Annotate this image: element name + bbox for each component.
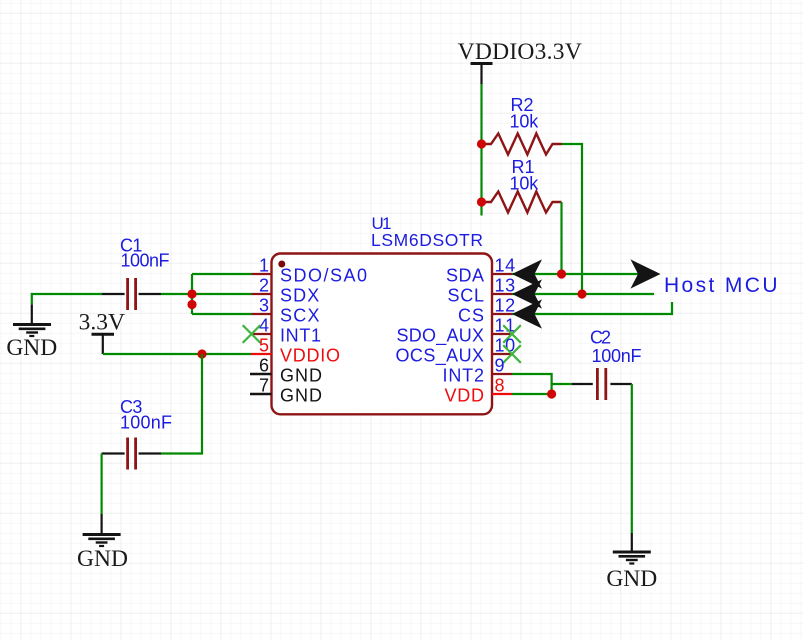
wire C3 to GND <box>100 454 102 515</box>
svg-text:9: 9 <box>495 356 505 376</box>
svg-text:13: 13 <box>495 276 516 296</box>
resistor R1 <box>482 157 562 213</box>
power flag VDDIO3.3V <box>458 39 582 84</box>
svg-text:GND: GND <box>606 566 657 592</box>
svg-text:SDO_AUX: SDO_AUX <box>397 326 485 347</box>
svg-text:3.3V: 3.3V <box>79 310 125 336</box>
svg-text:INT2: INT2 <box>443 366 485 386</box>
wire R1 to SDA <box>560 202 562 274</box>
svg-text:SCX: SCX <box>280 306 320 326</box>
svg-text:2: 2 <box>259 276 269 296</box>
pin 4 INT1 <box>252 316 322 346</box>
pin 14 SDA <box>446 256 515 286</box>
svg-text:10k: 10k <box>510 112 540 132</box>
capacitor C2 <box>572 328 642 401</box>
arrow into pin12 <box>512 299 542 328</box>
pin 10 OCS_AUX <box>396 336 516 367</box>
power flag 3.3V <box>79 310 125 355</box>
svg-text:SDA: SDA <box>446 266 484 286</box>
junction node 3.3V/C3 <box>197 349 206 358</box>
svg-text:GND: GND <box>280 366 322 386</box>
svg-text:6: 6 <box>259 356 269 376</box>
wire pin9 jog to C2 <box>512 374 572 394</box>
svg-text:8: 8 <box>495 376 505 396</box>
svg-text:7: 7 <box>259 376 269 396</box>
svg-text:10k: 10k <box>510 174 540 194</box>
svg-text:SDX: SDX <box>280 286 319 306</box>
pin 11 SDO_AUX <box>397 316 516 347</box>
wire SCL net <box>512 293 654 295</box>
no-connect X pin4 <box>243 325 261 343</box>
capacitor C3 <box>102 397 172 470</box>
wire C2 to GND <box>631 384 633 533</box>
arrow into pin14 <box>512 259 542 288</box>
pin 1 SDO/SA0 <box>252 256 368 286</box>
capacitor C1 <box>102 236 170 311</box>
arrow to Host MCU <box>631 259 661 288</box>
svg-text:14: 14 <box>495 256 516 276</box>
pin 13 SCL <box>448 276 516 306</box>
junction node pin2 bus <box>187 289 196 298</box>
pin 7 GND <box>250 376 322 406</box>
pin 12 CS <box>458 296 515 326</box>
junction node R2-rail <box>477 139 486 148</box>
ground GND C3 <box>77 514 128 572</box>
wire CS net <box>512 302 672 314</box>
op IC U1 body <box>272 214 493 414</box>
svg-text:VDDIO3.3V: VDDIO3.3V <box>458 39 582 65</box>
svg-text:5: 5 <box>259 336 269 356</box>
junction node pin8 <box>547 389 556 398</box>
svg-text:GND: GND <box>280 386 322 406</box>
svg-text:INT1: INT1 <box>280 326 321 346</box>
svg-text:3: 3 <box>259 296 269 316</box>
svg-text:CS: CS <box>458 306 484 326</box>
svg-text:SCL: SCL <box>448 286 485 306</box>
no-connect X pin11 <box>503 325 521 343</box>
wire pins1-3 bus vertical <box>191 274 193 314</box>
svg-text:SDO/SA0: SDO/SA0 <box>280 266 367 286</box>
wire pin1 <box>192 273 252 275</box>
ground GND left <box>6 304 57 361</box>
svg-text:C2: C2 <box>590 328 611 348</box>
pin 8 VDD <box>445 376 513 406</box>
svg-text:GND: GND <box>6 335 57 361</box>
wire down to C3 <box>161 354 202 454</box>
svg-text:VDDIO: VDDIO <box>280 346 340 366</box>
svg-text:VDD: VDD <box>445 386 485 406</box>
svg-text:100nF: 100nF <box>121 251 170 271</box>
wire SDA net <box>512 273 640 275</box>
wire C1 to GND <box>32 294 102 304</box>
svg-text:100nF: 100nF <box>120 413 172 433</box>
wire pin8 <box>512 393 552 395</box>
pin 6 GND <box>250 356 322 386</box>
ground GND C2 <box>606 533 657 592</box>
resistor R2 <box>482 95 562 155</box>
pin 3 SCX <box>252 296 320 326</box>
junction node R1-rail <box>477 197 486 206</box>
svg-text:GND: GND <box>77 546 128 572</box>
svg-text:LSM6DSOTR: LSM6DSOTR <box>371 230 483 250</box>
pin 2 SDX <box>252 276 320 306</box>
no-connect X pin10 <box>503 345 521 363</box>
svg-text:12: 12 <box>495 296 516 316</box>
wire pin3 <box>192 313 252 315</box>
wire pin2 to C1 <box>161 293 252 295</box>
svg-text:1: 1 <box>259 256 269 276</box>
arrow into pin13 <box>512 279 542 308</box>
wire R2 to SCL <box>562 144 583 294</box>
pin 9 INT2 <box>443 356 513 386</box>
pin 5 VDDIO <box>251 336 340 366</box>
junction node SDA/R1 <box>557 269 566 278</box>
svg-text:OCS_AUX: OCS_AUX <box>396 346 485 367</box>
junction node bus lower <box>187 300 196 309</box>
junction node SCL/R2 <box>577 289 586 298</box>
svg-text:100nF: 100nF <box>592 346 642 366</box>
wire VDDIO rail vertical <box>480 84 482 216</box>
wire 3.3V to pin5 <box>103 353 251 355</box>
